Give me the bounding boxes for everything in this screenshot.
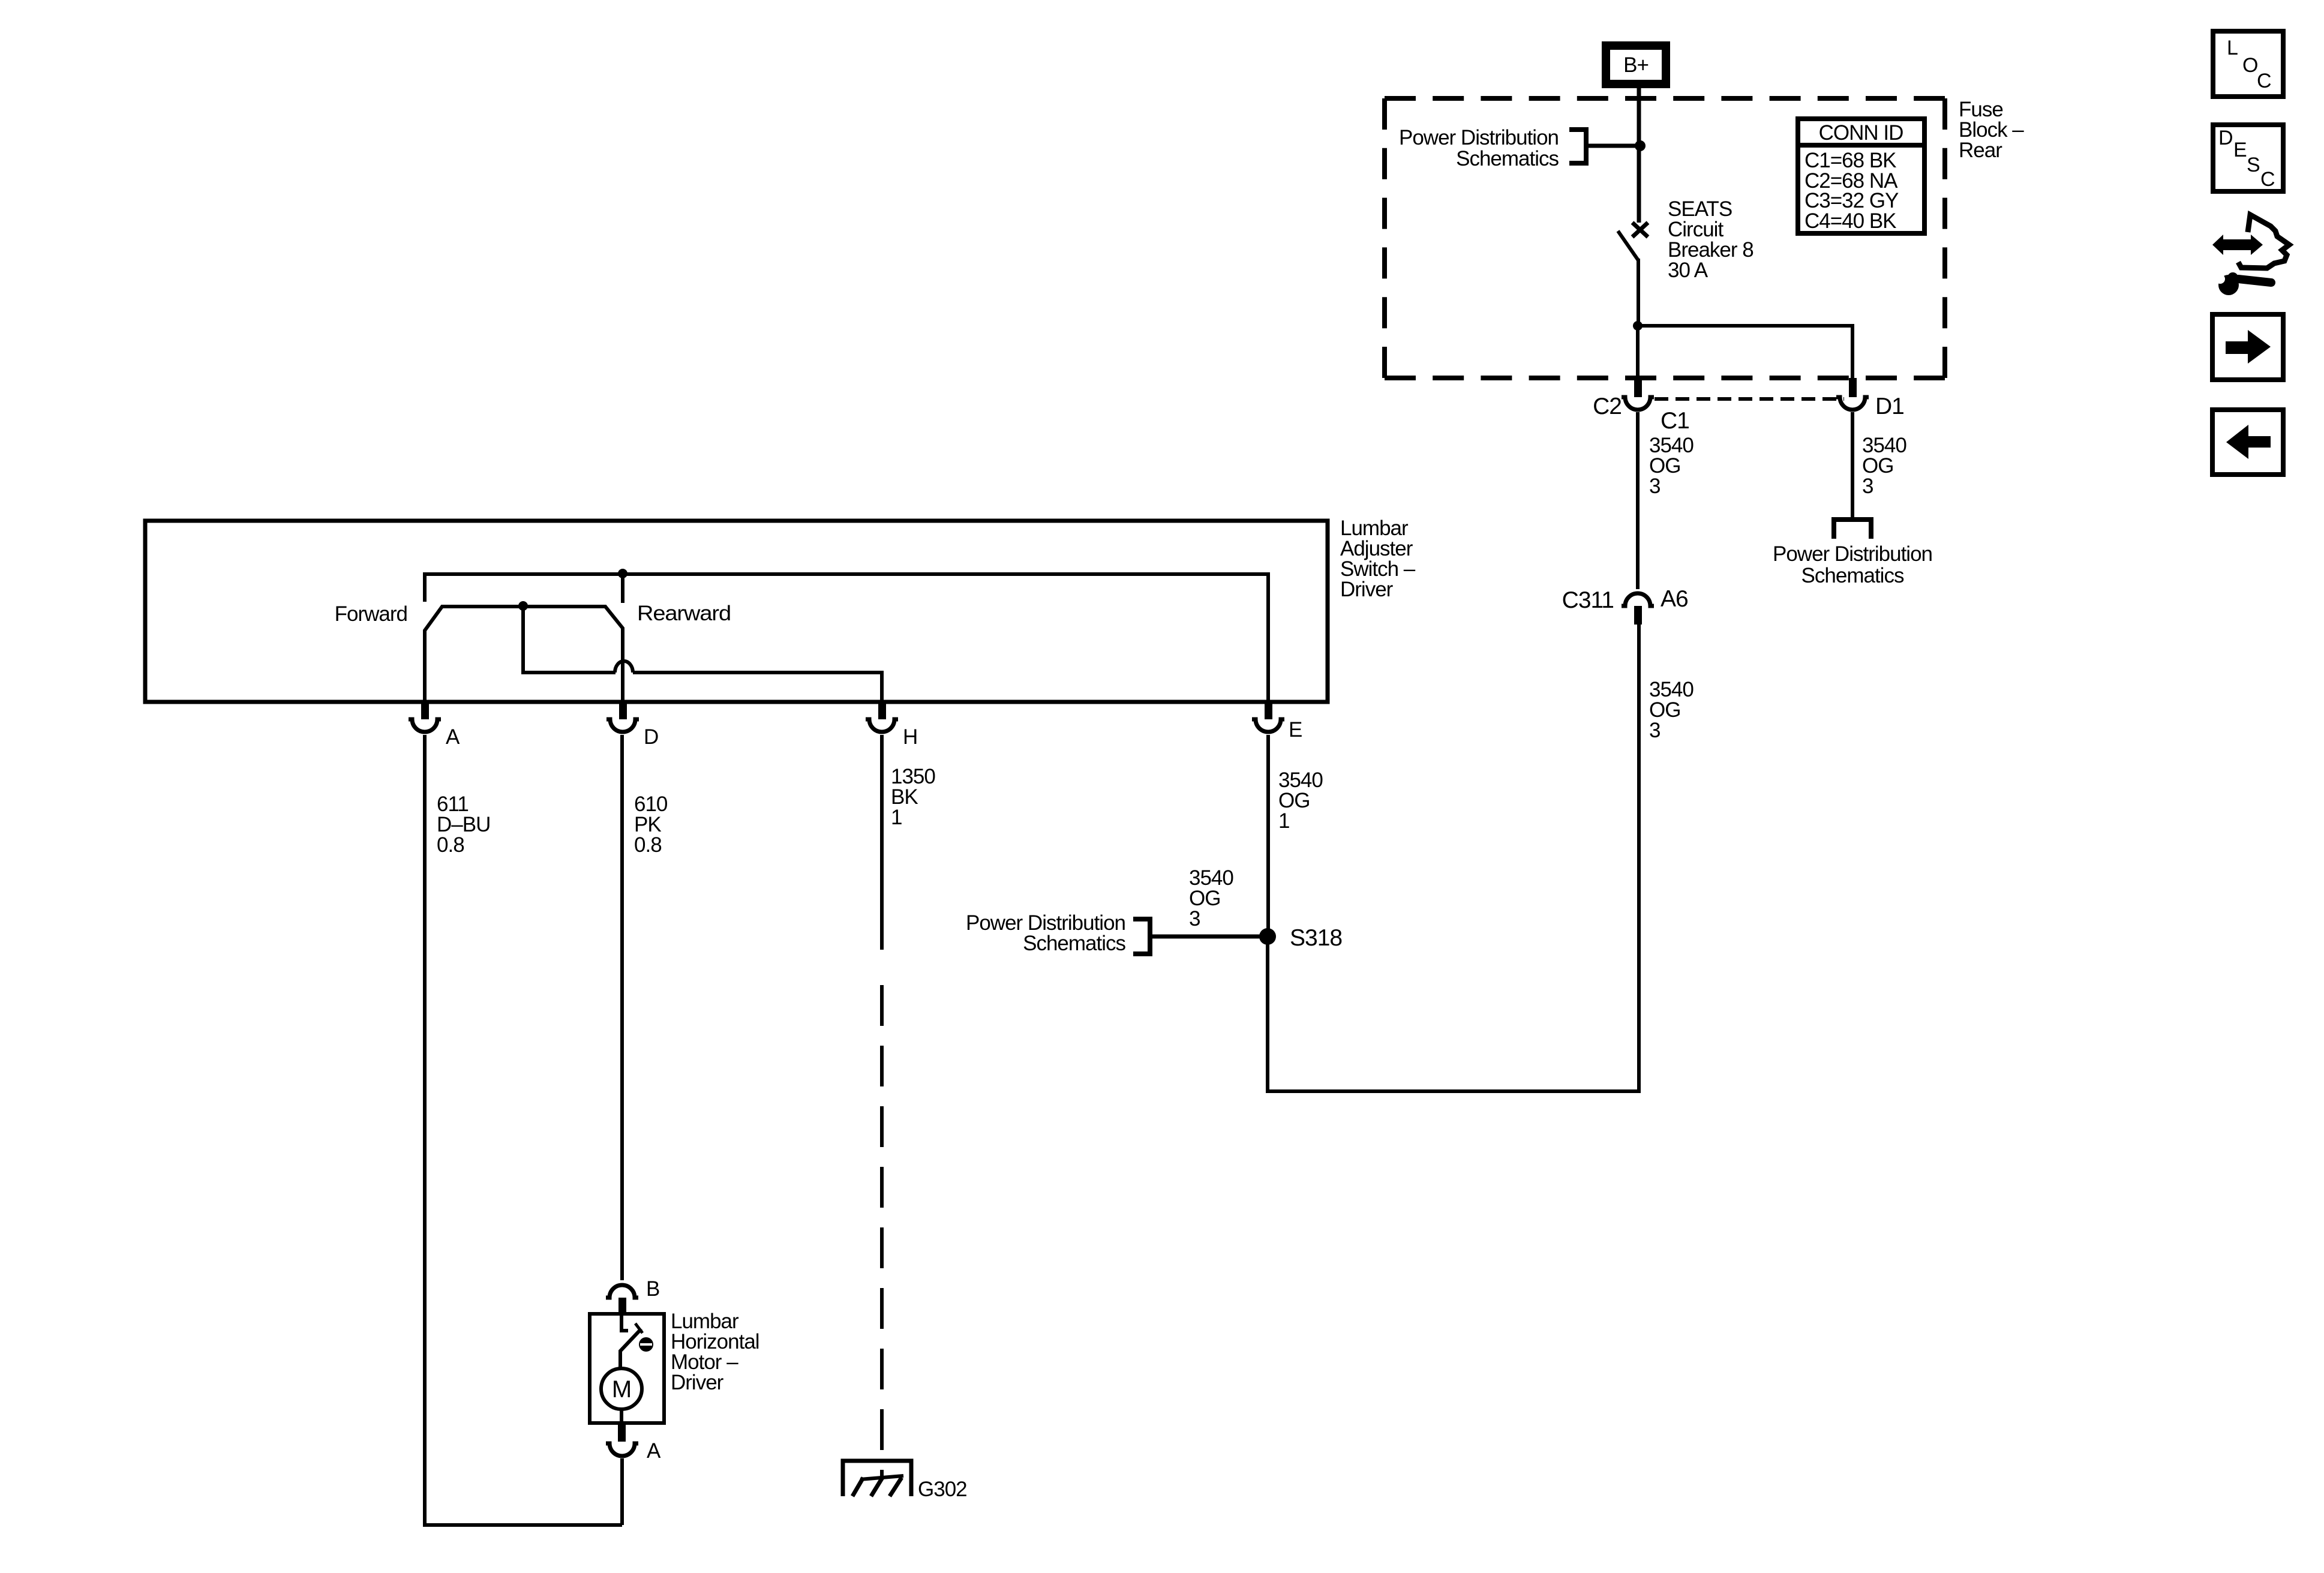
svg-text:Power Distribution: Power Distribution xyxy=(1399,126,1559,149)
wire 1350 BK: pin H down (solid then dashed) to G302 xyxy=(880,735,884,950)
Lumbar Horizontal Motor box xyxy=(590,1314,664,1423)
svg-text:Driver: Driver xyxy=(671,1371,724,1394)
svg-text:3: 3 xyxy=(1649,475,1660,498)
label 3540 OG 1 xyxy=(1278,769,1323,833)
junction dot below breaker xyxy=(1633,321,1643,331)
wire 610 PK: pin D down to motor B xyxy=(620,735,624,1280)
svg-text:Driver: Driver xyxy=(1340,578,1394,601)
label 3540 OG 3 (C1 wire) xyxy=(1649,434,1694,498)
label 3540 OG 3 (D1 wire) xyxy=(1862,434,1906,498)
off-page bracket below D1 xyxy=(1834,520,1871,539)
svg-text:C: C xyxy=(2260,168,2275,191)
wire motor A down to corner xyxy=(620,1458,624,1525)
wire switch common: forward stub, top wire, E pin drop xyxy=(425,574,1268,702)
svg-text:E: E xyxy=(1289,718,1302,742)
svg-text:3: 3 xyxy=(1189,907,1200,930)
svg-text:C1: C1 xyxy=(1661,408,1689,434)
wire junction to D1 drop xyxy=(1638,326,1852,379)
pin D of switch xyxy=(606,700,658,749)
ground G302 xyxy=(843,1461,911,1496)
svg-text:C: C xyxy=(2257,70,2271,92)
wire bracket to S318 xyxy=(1150,935,1268,939)
connector B of motor xyxy=(606,1277,659,1314)
svg-text:30 A: 30 A xyxy=(1668,259,1709,282)
splice S318 xyxy=(1259,928,1276,945)
svg-text:Schematics: Schematics xyxy=(1801,564,1904,587)
svg-text:3: 3 xyxy=(1862,475,1873,498)
junction dot on top wire xyxy=(618,569,627,578)
pin H of switch xyxy=(866,700,917,749)
fuse block dashed border xyxy=(1385,96,1945,101)
svg-text:3: 3 xyxy=(1649,719,1660,742)
icon LOC xyxy=(2213,31,2283,97)
label Lumbar Adjuster Switch - Driver xyxy=(1340,517,1416,601)
svg-text:1: 1 xyxy=(891,806,902,829)
svg-text:CONN ID: CONN ID xyxy=(1819,121,1903,145)
wire 611 D-BU: pin A down to motor A xyxy=(425,735,622,1525)
wire A6 down to corner xyxy=(1637,625,1641,1093)
svg-text:A: A xyxy=(446,725,460,749)
svg-text:Rear: Rear xyxy=(1959,139,2002,162)
wire hop over D line xyxy=(615,661,633,673)
wire C1 down to C311 xyxy=(1636,412,1640,589)
svg-text:Power Distribution: Power Distribution xyxy=(1773,542,1932,566)
svg-text:B: B xyxy=(646,1277,659,1301)
svg-text:A: A xyxy=(647,1439,661,1463)
svg-text:L: L xyxy=(2227,37,2238,59)
connector C2/C1 at fuse block xyxy=(1593,378,1689,434)
svg-text:H: H xyxy=(903,725,917,749)
label 1350 BK 1 xyxy=(891,765,935,829)
connector C311 / A6 xyxy=(1562,586,1688,625)
wiper return to H pin xyxy=(633,673,882,702)
label 610 PK 0.8 xyxy=(634,792,668,857)
pin E of switch xyxy=(1252,700,1302,742)
svg-text:C2: C2 xyxy=(1593,394,1622,419)
label 611 D-BU 0.8 xyxy=(437,792,490,857)
label 3540 OG 3 (S318 wire) xyxy=(1189,866,1233,930)
wire bracket to junction xyxy=(1586,144,1640,148)
svg-text:E: E xyxy=(2233,139,2247,161)
svg-text:C4=40 BK: C4=40 BK xyxy=(1804,209,1896,233)
connector boundary dashed line C2-D1 xyxy=(1655,397,1844,401)
svg-text:D: D xyxy=(2218,127,2233,149)
svg-text:0.8: 0.8 xyxy=(437,833,464,857)
connector A of motor xyxy=(606,1425,661,1463)
off-page bracket (S318) xyxy=(1133,919,1150,954)
junction dot on wiper bar xyxy=(518,601,528,611)
wire junction down to C2 xyxy=(1636,326,1640,380)
svg-text:A6: A6 xyxy=(1661,586,1688,612)
svg-text:O: O xyxy=(2242,54,2257,77)
icon DESC xyxy=(2213,125,2283,191)
label SEATS Circuit Breaker 8 30 A xyxy=(1668,197,1753,282)
svg-text:0.8: 0.8 xyxy=(634,833,662,857)
wire B+ down to breaker xyxy=(1637,88,1641,223)
svg-text:Schematics: Schematics xyxy=(1023,932,1125,955)
B+ power terminal xyxy=(1606,46,1666,84)
CONN ID table xyxy=(1795,119,1927,233)
label Lumbar Horizontal Motor - Driver xyxy=(671,1310,759,1394)
icon back arrow xyxy=(2212,410,2283,475)
switch wiper: A pin, diagonals and bar, D pin xyxy=(425,607,623,702)
svg-text:C311: C311 xyxy=(1562,587,1614,613)
wire D1 down xyxy=(1851,412,1854,518)
junction dot node B+ xyxy=(1635,140,1646,151)
wire M to box bottom xyxy=(620,1408,623,1424)
label 3540 OG 3 (A6 wire) xyxy=(1649,678,1694,742)
label Power Distribution Schematics (D1) xyxy=(1773,542,1932,587)
svg-text:M: M xyxy=(612,1376,631,1403)
svg-text:Forward: Forward xyxy=(335,602,407,626)
svg-text:Schematics: Schematics xyxy=(1456,147,1559,170)
svg-text:S: S xyxy=(2247,154,2260,176)
connector D1 xyxy=(1836,378,1904,419)
svg-text:B+: B+ xyxy=(1623,53,1649,77)
label Fuse Block - Rear xyxy=(1959,98,2024,162)
svg-text:1: 1 xyxy=(1278,809,1289,833)
motor M circle xyxy=(601,1368,642,1409)
motor internal breaker xyxy=(620,1314,653,1370)
svg-text:D: D xyxy=(644,725,658,749)
Lumbar Adjuster Switch box xyxy=(145,521,1328,702)
circuit breaker SEATS 8 xyxy=(1618,223,1648,326)
svg-text:Rearward: Rearward xyxy=(637,602,731,625)
svg-text:S318: S318 xyxy=(1290,925,1342,951)
svg-text:D1: D1 xyxy=(1875,394,1904,419)
off-page bracket (power distribution) xyxy=(1569,130,1586,163)
label Power Distribution Schematics (S318) xyxy=(966,911,1125,955)
pin A of switch xyxy=(409,700,460,749)
wire S318 down, right, up to A6 xyxy=(1268,936,1639,1091)
wiper return wire down and right xyxy=(523,607,615,673)
icon forward arrow xyxy=(2212,314,2283,380)
rearward contact stub xyxy=(621,574,624,603)
icon adjust with wrench xyxy=(2212,215,2289,295)
svg-text:G302: G302 xyxy=(918,1478,967,1501)
wire 3540 OG 1: pin E down to S318 xyxy=(1266,735,1270,936)
label Power Distribution Schematics (fuse block) xyxy=(1399,126,1559,170)
